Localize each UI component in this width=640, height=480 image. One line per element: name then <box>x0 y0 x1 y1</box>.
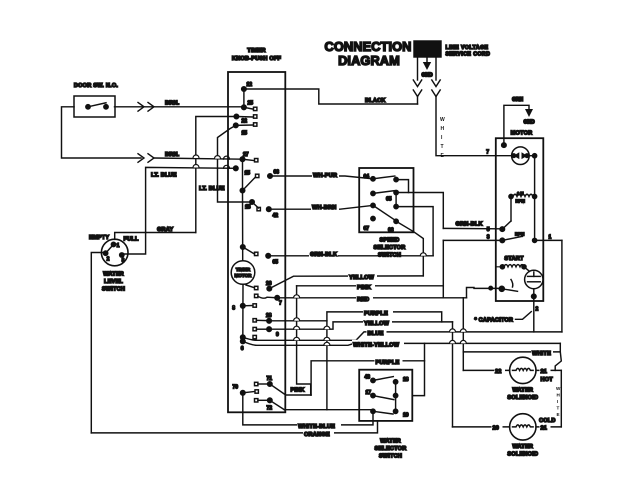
svg-text:KNOB-PUSH OFF: KNOB-PUSH OFF <box>232 56 282 62</box>
timer motor M2 <box>231 261 255 285</box>
svg-text:BRN.: BRN. <box>165 152 180 158</box>
wire PINK <box>297 285 444 287</box>
svg-text:FULL: FULL <box>124 237 139 243</box>
wire GRN gnd <box>504 105 529 145</box>
terminal 71 <box>268 382 273 387</box>
svg-text:18: 18 <box>403 377 409 383</box>
wire PINK riser to 71 <box>297 286 311 395</box>
svg-text:GND: GND <box>523 120 535 126</box>
svg-text:H: H <box>557 393 561 398</box>
wire BRN #1 <box>115 106 243 108</box>
svg-text:66: 66 <box>388 228 394 234</box>
terminal lt-blue dot <box>234 166 239 171</box>
wire terminal22 riser <box>196 117 237 233</box>
svg-text:7: 7 <box>486 150 489 156</box>
svg-text:SOLENOID: SOLENOID <box>507 452 538 458</box>
wire BLACK <box>244 89 418 104</box>
terminal 12 <box>242 87 247 92</box>
svg-text:WHITE-BLUE: WHITE-BLUE <box>298 424 335 430</box>
svg-text:25: 25 <box>248 101 254 107</box>
wire white-yellow drop to 21 <box>555 352 561 371</box>
svg-text:MOTOR: MOTOR <box>511 131 533 137</box>
contact 9 <box>253 327 256 330</box>
hop marks <box>193 155 466 345</box>
svg-text:PURPLE: PURPLE <box>364 311 388 317</box>
wire speed 66 blade exit <box>396 221 423 276</box>
timer box <box>228 72 285 412</box>
svg-text:H: H <box>441 126 445 132</box>
svg-text:SWITCH: SWITCH <box>102 287 125 293</box>
svg-text:CONNECTION: CONNECTION <box>324 39 411 54</box>
connector chevrons BRN #2 <box>138 154 144 163</box>
svg-text:2: 2 <box>107 257 110 263</box>
svg-text:GND: GND <box>421 73 433 79</box>
svg-text:GRN-BLK: GRN-BLK <box>456 222 483 228</box>
svg-text:21: 21 <box>541 426 548 432</box>
wire WHITE-BLUE <box>243 393 373 425</box>
svg-text:WATER: WATER <box>512 388 533 394</box>
wire PINK bottom <box>285 394 311 396</box>
svg-text:SELECTOR: SELECTOR <box>375 446 407 452</box>
svg-text:HOT: HOT <box>541 377 554 383</box>
svg-text:SELECTOR: SELECTOR <box>374 245 406 251</box>
contact 28 <box>253 319 256 322</box>
svg-text:19: 19 <box>403 413 409 419</box>
svg-text:RPM: RPM <box>516 199 526 204</box>
contact 63/15 <box>243 178 256 191</box>
svg-text:PINK: PINK <box>291 388 305 394</box>
wire BLUE row <box>243 332 562 340</box>
wire GRN-BLK timer 65 <box>268 255 433 257</box>
svg-text:65: 65 <box>386 197 392 203</box>
speed contacts <box>371 177 375 181</box>
motor right bus <box>529 155 534 157</box>
contact 42/15 <box>250 200 255 205</box>
terminal 72 <box>268 398 273 403</box>
svg-text:15: 15 <box>245 205 251 211</box>
svg-text:43: 43 <box>365 375 371 381</box>
capacitor C1 <box>525 270 543 288</box>
speed blades <box>373 176 395 179</box>
svg-text:WH-BRN: WH-BRN <box>312 205 337 211</box>
svg-text:T: T <box>557 406 560 411</box>
svg-text:PURPLE: PURPLE <box>376 360 400 366</box>
wire WH-PUR <box>270 176 373 179</box>
svg-text:LT. BLUE: LT. BLUE <box>199 186 225 192</box>
svg-text:* CAPACITOR: * CAPACITOR <box>475 318 514 324</box>
svg-text:3: 3 <box>122 258 125 264</box>
svg-text:64: 64 <box>364 174 370 180</box>
wire GRAY <box>115 233 196 240</box>
svg-text:SWITCH: SWITCH <box>379 454 402 460</box>
svg-text:LINE VOLTAGE: LINE VOLTAGE <box>446 45 489 51</box>
svg-text:WATER: WATER <box>380 439 401 445</box>
door switch DS1 <box>74 96 115 117</box>
timer bus upper <box>242 159 244 190</box>
svg-text:21: 21 <box>541 369 548 375</box>
svg-text:SOLENOID: SOLENOID <box>507 395 538 401</box>
wire left long orange riser <box>91 253 103 433</box>
wire RED <box>277 297 466 299</box>
svg-text:SPEED: SPEED <box>380 238 400 244</box>
svg-text:7: 7 <box>279 301 282 307</box>
svg-text:LEVEL: LEVEL <box>104 279 123 285</box>
svg-text:2: 2 <box>536 307 539 313</box>
wire WHITE row <box>463 343 560 352</box>
motor main winding <box>512 147 530 165</box>
rpm coil 1 <box>509 194 513 198</box>
svg-text:LT. BLUE: LT. BLUE <box>151 172 177 178</box>
svg-text:67: 67 <box>364 226 370 232</box>
svg-text:42: 42 <box>273 213 279 219</box>
wire speed 65-exit riser <box>396 207 433 256</box>
svg-text:GRAY: GRAY <box>157 227 174 233</box>
cold water solenoid L2 <box>510 414 536 440</box>
svg-text:WATER: WATER <box>103 272 124 278</box>
svg-text:6: 6 <box>241 346 244 352</box>
svg-text:E: E <box>557 412 560 417</box>
svg-text:I: I <box>557 399 558 404</box>
svg-text:1: 1 <box>117 243 120 249</box>
svg-text:W: W <box>556 386 561 391</box>
svg-text:15: 15 <box>245 171 251 177</box>
svg-text:I: I <box>441 135 443 141</box>
svg-text:22: 22 <box>495 369 502 375</box>
svg-text:27: 27 <box>243 152 249 158</box>
wsel blades <box>373 377 393 381</box>
wire red riser to hot solenoid <box>462 298 464 371</box>
svg-text:COLD: COLD <box>539 418 556 424</box>
svg-text:8: 8 <box>232 306 235 312</box>
svg-text:3: 3 <box>487 235 490 241</box>
terminal 22 <box>234 114 239 119</box>
wire YELLOW <box>269 276 423 289</box>
speed selector box <box>359 168 413 232</box>
svg-text:GRN: GRN <box>512 97 524 103</box>
svg-text:15: 15 <box>242 131 248 137</box>
svg-text:WATER: WATER <box>512 444 533 450</box>
wire yellow2 riser to cold solenoid <box>452 322 454 427</box>
wire pin3 riser <box>442 240 444 297</box>
cord line black <box>417 57 419 80</box>
wire LT. BLUE #1 <box>146 167 236 232</box>
svg-text:6 U: 6 U <box>517 191 524 196</box>
svg-text:WH-PUR: WH-PUR <box>313 173 337 179</box>
svg-text:RED: RED <box>357 297 369 303</box>
wire door switch left loop <box>62 107 142 158</box>
motor box <box>496 138 544 301</box>
svg-text:DIAGRAM: DIAGRAM <box>338 53 400 68</box>
contact 26 <box>246 285 254 288</box>
svg-text:RPM: RPM <box>515 232 525 237</box>
svg-text:ORANGE: ORANGE <box>304 432 330 438</box>
svg-text:MOTOR: MOTOR <box>234 273 252 278</box>
bus bottom dots <box>241 335 246 340</box>
wire LT. BLUE #2 riser <box>218 125 253 202</box>
svg-text:YELLOW: YELLOW <box>349 275 375 281</box>
capacitor pin 2 <box>532 294 537 299</box>
wire YELLOW 2 row <box>269 322 452 329</box>
wire ORANGE <box>91 421 377 433</box>
svg-text:BLACK: BLACK <box>365 98 386 104</box>
svg-text:26: 26 <box>266 281 272 287</box>
pin 4 start switch <box>489 286 493 290</box>
svg-text:SERVICE CORD: SERVICE CORD <box>446 52 491 58</box>
cord line white <box>435 57 437 80</box>
water selector box <box>359 370 412 421</box>
wsel contacts <box>371 378 375 382</box>
wire RED riser to pin4 <box>467 288 502 298</box>
svg-text:20: 20 <box>493 426 500 432</box>
svg-text:T: T <box>441 144 444 150</box>
line voltage service cord <box>414 41 441 57</box>
svg-text:BLUE: BLUE <box>368 331 384 337</box>
wire BRN #2 <box>154 158 243 159</box>
svg-text:65: 65 <box>273 260 279 266</box>
svg-text:63: 63 <box>274 170 280 176</box>
svg-text:9: 9 <box>276 332 279 338</box>
terminal 8 <box>241 304 246 309</box>
terminal 15a <box>234 123 239 128</box>
wire WHITE vertical <box>436 97 496 156</box>
gnd arrow service cord <box>426 57 428 62</box>
rpm switch to pin 5 <box>510 197 512 222</box>
svg-text:TIMER: TIMER <box>236 267 251 272</box>
svg-text:28: 28 <box>266 313 272 319</box>
wire WH-BRN <box>269 205 373 209</box>
hot water solenoid L1 <box>510 357 536 383</box>
svg-text:WHITE: WHITE <box>532 351 551 357</box>
water level switch S2 <box>101 239 128 266</box>
terminal 70 <box>241 391 246 396</box>
svg-text:WHITE-YELLOW: WHITE-YELLOW <box>353 342 400 348</box>
terminal 27 <box>240 157 245 162</box>
wire pin1 riser <box>561 240 563 332</box>
svg-text:YELLOW: YELLOW <box>364 321 390 327</box>
wire 72 row to 19 <box>284 409 371 411</box>
svg-text:BRN.: BRN. <box>165 101 180 107</box>
svg-text:72: 72 <box>267 406 273 412</box>
svg-text:EMPTY: EMPTY <box>89 235 109 241</box>
svg-text:22: 22 <box>242 119 248 125</box>
connector chevrons BRN #1 <box>138 103 144 112</box>
wire PURPLE row <box>269 312 442 322</box>
wire grn-blk to motor pin5 <box>396 193 443 229</box>
svg-text:12: 12 <box>247 82 253 88</box>
svg-text:1: 1 <box>549 235 552 241</box>
terminal 25 <box>242 105 247 110</box>
wire WHITE vertical between solenoids <box>560 370 562 427</box>
wire WHITE-YELLOW row <box>243 341 561 345</box>
contact 7 <box>255 294 258 297</box>
contact 65 grn-blk <box>241 245 246 250</box>
svg-text:DOOR SW. N.O.: DOOR SW. N.O. <box>74 83 118 89</box>
svg-text:TIMER: TIMER <box>247 48 265 54</box>
svg-text:70: 70 <box>232 385 238 391</box>
svg-text:W: W <box>440 117 445 123</box>
svg-text:PINK: PINK <box>357 285 371 291</box>
svg-text:5: 5 <box>487 227 490 233</box>
wire full-terminal riser <box>123 233 146 255</box>
svg-text:GRN-BLK: GRN-BLK <box>310 252 337 258</box>
wire purple-bottom loop <box>311 361 424 395</box>
svg-text:71: 71 <box>267 376 273 382</box>
svg-text:START: START <box>504 256 524 262</box>
wire left bus riser x327 <box>326 321 328 410</box>
